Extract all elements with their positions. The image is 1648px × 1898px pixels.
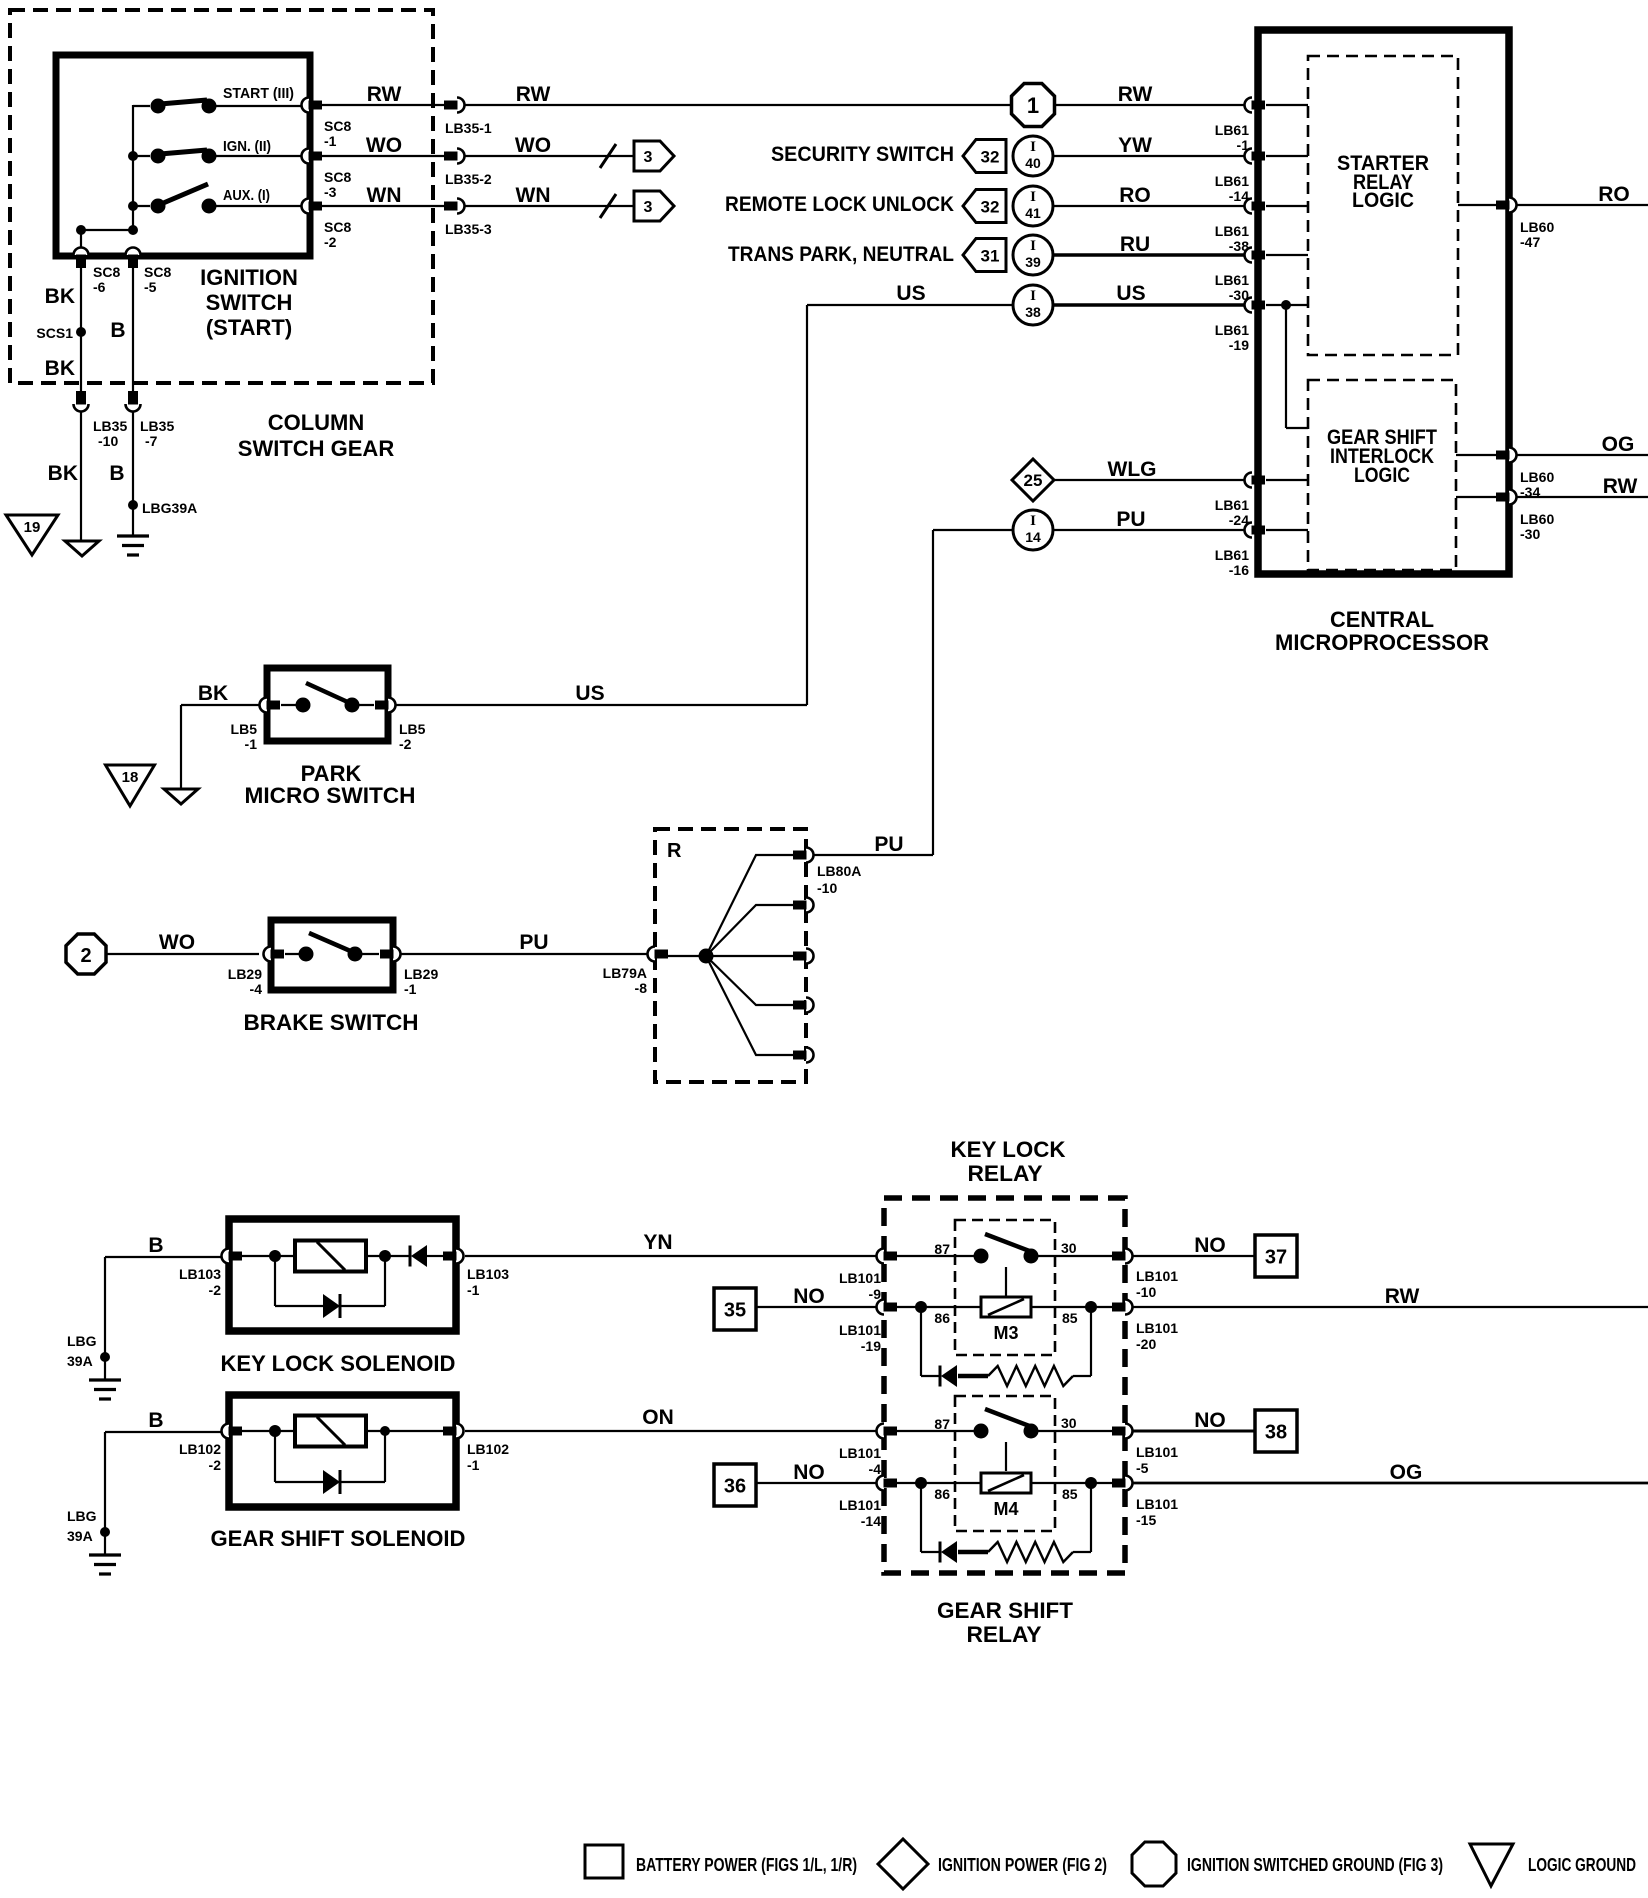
svg-text:LB35-3: LB35-3 xyxy=(445,221,492,237)
svg-text:R: R xyxy=(667,840,682,862)
svg-text:M3: M3 xyxy=(993,1323,1018,1343)
svg-text:LB61: LB61 xyxy=(1215,173,1249,189)
svg-text:YW: YW xyxy=(1118,134,1152,157)
pin LB80A third xyxy=(793,949,814,964)
svg-text:SC8: SC8 xyxy=(324,219,351,235)
svg-text:I: I xyxy=(1030,513,1036,529)
wire NO to 38 xyxy=(1133,1430,1255,1433)
svg-text:25: 25 xyxy=(1024,471,1043,490)
node LBG39A key lock xyxy=(100,1352,110,1362)
svg-text:MICROPROCESSOR: MICROPROCESSOR xyxy=(1275,630,1489,655)
battery power 38 xyxy=(1255,1410,1297,1452)
svg-text:IGNITION POWER (FIG 2): IGNITION POWER (FIG 2) xyxy=(938,1855,1107,1875)
node AUX bus junction xyxy=(128,201,138,211)
svg-text:MICRO SWITCH: MICRO SWITCH xyxy=(245,783,416,808)
wire RW out xyxy=(1517,496,1648,498)
key lock relay title xyxy=(951,1137,1066,1186)
node R junction xyxy=(699,949,714,964)
node M4 coil left junction xyxy=(915,1477,927,1489)
svg-text:32: 32 xyxy=(981,148,1000,167)
relay M3 suppression branch xyxy=(921,1307,1091,1376)
legend battery power symbol xyxy=(585,1845,623,1878)
svg-text:US: US xyxy=(575,682,604,705)
svg-text:-6: -6 xyxy=(93,279,106,295)
wire stub LB61-1 xyxy=(1266,104,1308,106)
wire stub LB61-14 xyxy=(1266,155,1308,157)
gear shift solenoid box xyxy=(229,1395,456,1507)
ignition switched ground I-38 xyxy=(1013,285,1053,325)
off-page arrow 3 WO xyxy=(634,141,674,171)
svg-text:LB79A: LB79A xyxy=(603,965,647,981)
svg-text:-10: -10 xyxy=(98,433,118,449)
relay M3 coil row wire xyxy=(891,1306,1118,1308)
relay M3 dashed box xyxy=(955,1220,1055,1355)
svg-text:LB101: LB101 xyxy=(839,1322,881,1338)
svg-text:SC8: SC8 xyxy=(324,169,351,185)
relay M4 contacts xyxy=(974,1409,1039,1471)
svg-text:-47: -47 xyxy=(1520,234,1540,250)
svg-text:BK: BK xyxy=(45,285,75,308)
gear shift solenoid left pin LB102-2 xyxy=(222,1424,243,1439)
ignition switched ground 2 xyxy=(66,934,106,974)
pin LB80A-10 xyxy=(793,848,814,863)
pin LB60-30 xyxy=(1496,490,1517,505)
svg-text:-7: -7 xyxy=(145,433,158,449)
svg-text:COLUMN: COLUMN xyxy=(268,410,365,435)
wire NO from 36 xyxy=(756,1482,877,1484)
node US branch junction xyxy=(1281,300,1291,310)
resistor pack R dashed box xyxy=(655,829,806,1082)
svg-text:38: 38 xyxy=(1025,304,1041,320)
svg-text:GEAR SHIFT: GEAR SHIFT xyxy=(937,1598,1074,1623)
svg-text:BATTERY POWER (FIGS 1/L, 1/R): BATTERY POWER (FIGS 1/L, 1/R) xyxy=(636,1855,857,1875)
svg-text:2: 2 xyxy=(80,945,91,967)
svg-text:OG: OG xyxy=(1390,1461,1423,1484)
pin SC8-2 xyxy=(302,199,323,214)
park micro switch title xyxy=(245,761,416,808)
svg-text:1: 1 xyxy=(1027,93,1039,118)
svg-text:-2: -2 xyxy=(324,234,337,250)
diode D4 M3 xyxy=(940,1365,957,1387)
svg-text:-2: -2 xyxy=(209,1457,222,1473)
gear shift solenoid right pin LB102-1 xyxy=(443,1424,464,1439)
svg-text:LB103: LB103 xyxy=(179,1266,221,1282)
pin SC8-1 xyxy=(302,98,323,113)
svg-text:LB35: LB35 xyxy=(93,418,127,434)
svg-text:NO: NO xyxy=(793,1461,825,1484)
wire OG out xyxy=(1517,454,1648,456)
wire stub LB61-24 xyxy=(1266,479,1308,481)
wire YN xyxy=(465,1255,877,1257)
svg-text:30: 30 xyxy=(1061,1415,1077,1431)
chassis ground key lock xyxy=(89,1380,121,1399)
svg-text:-14: -14 xyxy=(861,1513,881,1529)
svg-text:36: 36 xyxy=(724,1476,746,1498)
relay M4 pin 30 LB101-5 xyxy=(1112,1424,1133,1439)
wire R internal fan xyxy=(668,855,793,1055)
solenoid coil L2 xyxy=(295,1416,366,1447)
node LBG39A gear shift xyxy=(100,1527,110,1537)
svg-text:LBG39A: LBG39A xyxy=(142,500,197,516)
svg-text:START (III): START (III) xyxy=(223,85,294,102)
wire PU corner to I-14 xyxy=(933,530,1013,855)
column switch gear title xyxy=(238,410,395,461)
key lock solenoid left pin LB103-2 xyxy=(222,1249,243,1264)
wire RW row 1 xyxy=(321,104,444,106)
relay M4 coil row wire xyxy=(891,1482,1118,1484)
svg-text:LOGIC: LOGIC xyxy=(1352,189,1414,212)
pin LB80A second xyxy=(793,898,814,913)
wire WLG xyxy=(1054,479,1245,481)
node LBG39A xyxy=(128,500,138,510)
svg-text:LB35-2: LB35-2 xyxy=(445,171,492,187)
svg-text:OG: OG xyxy=(1602,433,1635,456)
switch IGN (II) contacts xyxy=(133,149,303,164)
brake switch left pin LB29-4 xyxy=(264,947,285,962)
svg-text:M4: M4 xyxy=(993,1499,1018,1519)
svg-text:KEY LOCK: KEY LOCK xyxy=(951,1137,1066,1162)
legend logic ground symbol xyxy=(1470,1844,1513,1886)
key lock solenoid right pin LB103-1 xyxy=(443,1249,464,1264)
svg-text:PU: PU xyxy=(874,833,903,856)
svg-text:14: 14 xyxy=(1025,529,1041,545)
svg-text:LB103: LB103 xyxy=(467,1266,509,1282)
svg-text:SWITCH: SWITCH xyxy=(206,290,293,315)
wire break slash WO xyxy=(600,144,616,168)
svg-text:-1: -1 xyxy=(404,981,417,997)
node bus-start junction xyxy=(76,225,86,235)
svg-text:86: 86 xyxy=(934,1486,950,1502)
legend ignition power symbol xyxy=(878,1839,928,1889)
svg-text:B: B xyxy=(148,1234,163,1257)
svg-text:I: I xyxy=(1030,288,1036,304)
node M3 coil left junction xyxy=(915,1301,927,1313)
svg-text:3: 3 xyxy=(644,149,653,166)
svg-text:LB29: LB29 xyxy=(228,966,262,982)
wire PU brake xyxy=(401,953,647,955)
svg-text:B: B xyxy=(109,462,124,485)
svg-text:86: 86 xyxy=(934,1310,950,1326)
ignition switched ground I-41 xyxy=(1013,186,1053,226)
svg-text:RW: RW xyxy=(1118,83,1153,106)
park micro switch box xyxy=(267,668,388,741)
node L1 left junction xyxy=(269,1250,281,1262)
svg-text:LB101: LB101 xyxy=(839,1497,881,1513)
svg-text:37: 37 xyxy=(1265,1247,1287,1269)
svg-text:-2: -2 xyxy=(399,736,412,752)
svg-text:WO: WO xyxy=(515,134,551,157)
logic ground 18 xyxy=(106,765,155,806)
svg-text:B: B xyxy=(110,319,125,342)
svg-text:US: US xyxy=(1116,282,1145,305)
svg-text:IGNITION: IGNITION xyxy=(200,265,298,290)
wire B from SC8-5 xyxy=(132,268,134,392)
diode D2 key lock bypass xyxy=(323,1294,340,1318)
svg-text:87: 87 xyxy=(934,1241,950,1257)
pin LB60-47 xyxy=(1496,198,1517,213)
svg-text:-10: -10 xyxy=(1136,1284,1156,1300)
svg-text:LB61: LB61 xyxy=(1215,322,1249,338)
svg-text:IGN. (II): IGN. (II) xyxy=(223,138,271,155)
gear shift interlock logic label xyxy=(1327,426,1437,487)
battery power 36 xyxy=(714,1464,756,1506)
svg-text:RW: RW xyxy=(367,83,402,106)
relay M3 coil pin LB101-20 xyxy=(1112,1300,1133,1315)
ignition switched ground I-40 xyxy=(1013,136,1053,176)
svg-text:-20: -20 xyxy=(1136,1336,1156,1352)
node L1 right junction xyxy=(379,1250,391,1262)
svg-text:LB29: LB29 xyxy=(404,966,438,982)
wire WO brake xyxy=(106,953,259,955)
svg-text:SC8: SC8 xyxy=(144,264,171,280)
pin LB61-16 xyxy=(1245,523,1266,538)
svg-text:-10: -10 xyxy=(817,880,837,896)
chassis ground LBG39A xyxy=(117,536,149,555)
off-page arrow 3 WN xyxy=(634,191,674,221)
node SCS1 xyxy=(76,327,86,337)
wire B key lock xyxy=(105,1257,221,1380)
svg-text:LB101: LB101 xyxy=(1136,1444,1178,1460)
svg-text:31: 31 xyxy=(981,247,1000,266)
node M4 coil right junction xyxy=(1085,1477,1097,1489)
wire NO to 37 xyxy=(1133,1255,1255,1257)
node IGN bus junction xyxy=(128,151,138,161)
park switch right pin LB5-2 xyxy=(375,698,396,713)
connector LB35-10 xyxy=(74,391,89,412)
brake switch contacts xyxy=(285,933,379,962)
pin LB61-19 xyxy=(1245,298,1266,313)
svg-text:35: 35 xyxy=(724,1300,746,1322)
brake switch box xyxy=(271,920,393,990)
svg-text:YN: YN xyxy=(643,1231,672,1254)
svg-text:ON: ON xyxy=(642,1406,674,1429)
wire stub LB61-16 xyxy=(1266,529,1308,531)
wire BK park xyxy=(181,705,259,789)
ground arrow park xyxy=(164,789,198,804)
wire RO row xyxy=(1053,205,1245,207)
relay M4 coil pin LB101-15 xyxy=(1112,1476,1133,1491)
svg-text:LB61: LB61 xyxy=(1215,223,1249,239)
svg-text:WO: WO xyxy=(159,931,195,954)
pin LB61-38 xyxy=(1245,199,1266,214)
svg-text:RELAY: RELAY xyxy=(968,1161,1043,1186)
svg-text:30: 30 xyxy=(1061,1240,1077,1256)
ignition switched ground 1 xyxy=(1012,84,1055,127)
svg-text:WN: WN xyxy=(516,184,551,207)
pin LB61-14 xyxy=(1245,149,1266,164)
off-page arrow 32 security xyxy=(963,140,1006,173)
svg-text:LB80A: LB80A xyxy=(817,863,861,879)
solenoid L2 wire xyxy=(242,1430,443,1432)
svg-text:LB60: LB60 xyxy=(1520,511,1554,527)
wire WO row 1 xyxy=(321,155,444,157)
wire WN row 1 xyxy=(321,205,444,207)
svg-text:39: 39 xyxy=(1025,254,1041,270)
battery power 37 xyxy=(1255,1235,1297,1277)
svg-text:RW: RW xyxy=(1603,475,1638,498)
relay M3 switch row wire xyxy=(891,1255,1118,1257)
diode D3 gear shift bypass xyxy=(323,1470,340,1494)
svg-text:WLG: WLG xyxy=(1108,458,1157,481)
gear shift interlock logic dashed box xyxy=(1308,380,1456,570)
node L2 left junction xyxy=(269,1425,281,1437)
gear shift relay title xyxy=(937,1598,1074,1647)
svg-text:WN: WN xyxy=(367,184,402,207)
wire WO row 2 xyxy=(465,155,634,157)
column switch gear dashed box xyxy=(10,10,433,383)
svg-text:-4: -4 xyxy=(250,981,263,997)
wire OG relay out xyxy=(1133,1482,1648,1485)
svg-text:85: 85 xyxy=(1062,1486,1078,1502)
wire stub LB61-30 xyxy=(1266,254,1308,256)
svg-text:KEY LOCK SOLENOID: KEY LOCK SOLENOID xyxy=(221,1351,456,1376)
wire stub LB61-38 xyxy=(1266,205,1308,207)
svg-text:LB5: LB5 xyxy=(231,721,258,737)
pin LB80A fifth xyxy=(793,1048,814,1063)
svg-text:-1: -1 xyxy=(467,1282,480,1298)
wire break slash WN xyxy=(600,194,616,218)
svg-text:IGNITION SWITCHED GROUND (FIG: IGNITION SWITCHED GROUND (FIG 3) xyxy=(1187,1855,1443,1875)
svg-text:BK: BK xyxy=(198,682,228,705)
svg-text:TRANS PARK, NEUTRAL: TRANS PARK, NEUTRAL xyxy=(728,243,954,266)
svg-text:-1: -1 xyxy=(467,1457,480,1473)
svg-text:CENTRAL: CENTRAL xyxy=(1330,607,1434,632)
pin LB61-24 xyxy=(1245,473,1266,488)
svg-text:39A: 39A xyxy=(67,1353,93,1369)
ground arrow BK xyxy=(65,541,99,556)
svg-text:LB102: LB102 xyxy=(467,1441,509,1457)
relay pack dashed box xyxy=(884,1198,1125,1573)
relay M3 coil pin LB101-19 xyxy=(877,1300,898,1315)
svg-text:-5: -5 xyxy=(144,279,157,295)
relay M3 pin 87 LB101-9 xyxy=(877,1249,898,1264)
wire RW relay out xyxy=(1133,1306,1648,1308)
svg-text:41: 41 xyxy=(1025,205,1041,221)
svg-text:LB61: LB61 xyxy=(1215,547,1249,563)
svg-text:RELAY: RELAY xyxy=(967,1622,1042,1647)
ignition power 25 xyxy=(1012,459,1054,501)
switch START (III) contacts xyxy=(133,99,303,114)
pin LB79A-8 xyxy=(648,947,669,962)
wire RU xyxy=(1053,253,1245,256)
svg-text:LB102: LB102 xyxy=(179,1441,221,1457)
relay M3 coil xyxy=(981,1297,1031,1317)
svg-text:I: I xyxy=(1030,189,1036,205)
svg-text:SC8: SC8 xyxy=(324,118,351,134)
wire ON xyxy=(465,1430,877,1432)
bypass diode branch L1 xyxy=(275,1256,385,1306)
svg-text:-16: -16 xyxy=(1229,562,1249,578)
svg-text:SECURITY SWITCH: SECURITY SWITCH xyxy=(771,143,954,166)
battery power 35 xyxy=(714,1288,756,1330)
svg-text:-4: -4 xyxy=(869,1461,882,1477)
svg-text:LB60: LB60 xyxy=(1520,219,1554,235)
svg-text:85: 85 xyxy=(1062,1310,1078,1326)
wire US vertical xyxy=(806,305,808,705)
starter relay logic dashed box xyxy=(1308,56,1458,355)
wire WN row 2 xyxy=(465,205,634,207)
svg-text:RW: RW xyxy=(516,83,551,106)
svg-text:18: 18 xyxy=(122,769,139,786)
relay M4 pin 87 LB101-4 xyxy=(877,1424,898,1439)
svg-text:LB5: LB5 xyxy=(399,721,426,737)
ignition switched ground I-14 xyxy=(1013,510,1053,550)
svg-text:LB101: LB101 xyxy=(1136,1268,1178,1284)
pin SC8-5 xyxy=(126,248,141,269)
legend ignition switched ground symbol xyxy=(1132,1842,1176,1886)
wire B to ground xyxy=(132,412,134,536)
svg-text:AUX. (I): AUX. (I) xyxy=(223,187,270,204)
wire RW row 3 xyxy=(1055,104,1245,106)
svg-text:LBG: LBG xyxy=(67,1333,97,1349)
wire NO from 35 xyxy=(756,1306,877,1308)
svg-text:LOGIC: LOGIC xyxy=(1354,464,1410,487)
svg-text:LOGIC GROUND: LOGIC GROUND xyxy=(1528,1855,1636,1875)
svg-text:LB101: LB101 xyxy=(839,1445,881,1461)
relay M4 suppression branch xyxy=(921,1483,1091,1552)
svg-text:32: 32 xyxy=(981,198,1000,217)
pin LB80A fourth xyxy=(793,998,814,1013)
svg-text:LBG: LBG xyxy=(67,1508,97,1524)
relay M4 coil pin LB101-14 xyxy=(877,1476,898,1491)
wire YW xyxy=(1053,155,1245,157)
svg-text:-5: -5 xyxy=(1136,1460,1149,1476)
connector LB35-7 xyxy=(126,391,141,412)
svg-text:BK: BK xyxy=(48,462,78,485)
wire stub RW out xyxy=(1456,496,1503,498)
pin SC8-6 xyxy=(74,248,89,269)
svg-text:LB101: LB101 xyxy=(1136,1496,1178,1512)
svg-text:39A: 39A xyxy=(67,1528,93,1544)
wire PU from R xyxy=(814,854,933,856)
svg-text:SCS1: SCS1 xyxy=(36,325,73,341)
pin LB60-34 xyxy=(1496,448,1517,463)
svg-text:-2: -2 xyxy=(209,1282,222,1298)
key lock solenoid box xyxy=(229,1219,456,1331)
svg-text:3: 3 xyxy=(644,199,653,216)
svg-text:NO: NO xyxy=(1194,1409,1226,1432)
resistor R2 M4 xyxy=(988,1542,1073,1562)
svg-text:RO: RO xyxy=(1119,184,1151,207)
resistor R1 M3 xyxy=(988,1366,1073,1386)
wire US horizontal xyxy=(807,304,1013,306)
ignition switch box xyxy=(56,55,310,256)
wire BK from SC8-6 xyxy=(80,268,82,392)
connector LB35-3 xyxy=(444,199,465,214)
brake switch right pin LB29-1 xyxy=(380,947,401,962)
wire B gear shift xyxy=(105,1432,221,1555)
svg-text:PU: PU xyxy=(519,931,548,954)
diode D5 M4 xyxy=(940,1541,957,1563)
wire PU to pin xyxy=(1053,529,1245,531)
wire BK to ground xyxy=(80,412,82,541)
wire RW row 2 xyxy=(465,104,1012,106)
connector LB35-1 xyxy=(444,98,465,113)
wire US to pin xyxy=(1053,303,1245,306)
chassis ground gear shift xyxy=(89,1555,121,1574)
svg-text:LB61: LB61 xyxy=(1215,497,1249,513)
off-page arrow 32 remote xyxy=(963,190,1006,223)
switch AUX (I) contacts xyxy=(133,184,303,214)
svg-text:40: 40 xyxy=(1025,155,1041,171)
wire stub RO out xyxy=(1458,204,1503,206)
svg-text:-3: -3 xyxy=(324,184,337,200)
svg-text:B: B xyxy=(148,1409,163,1432)
svg-text:-30: -30 xyxy=(1520,526,1540,542)
svg-text:RW: RW xyxy=(1385,1285,1420,1308)
svg-text:WO: WO xyxy=(366,134,402,157)
solenoid L1 wire xyxy=(242,1255,443,1257)
